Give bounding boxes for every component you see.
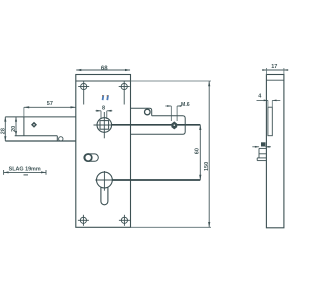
svg-text:57: 57: [47, 101, 53, 107]
svg-text:20: 20: [11, 126, 17, 132]
svg-text:150: 150: [204, 162, 210, 171]
svg-text:60: 60: [195, 148, 201, 154]
svg-text:SLAG 19mm: SLAG 19mm: [9, 166, 41, 172]
svg-text:68: 68: [101, 66, 108, 72]
svg-text:17: 17: [271, 64, 277, 70]
svg-text:M.6: M.6: [181, 102, 190, 108]
svg-text:8: 8: [102, 105, 105, 111]
svg-text:28: 28: [1, 128, 7, 134]
